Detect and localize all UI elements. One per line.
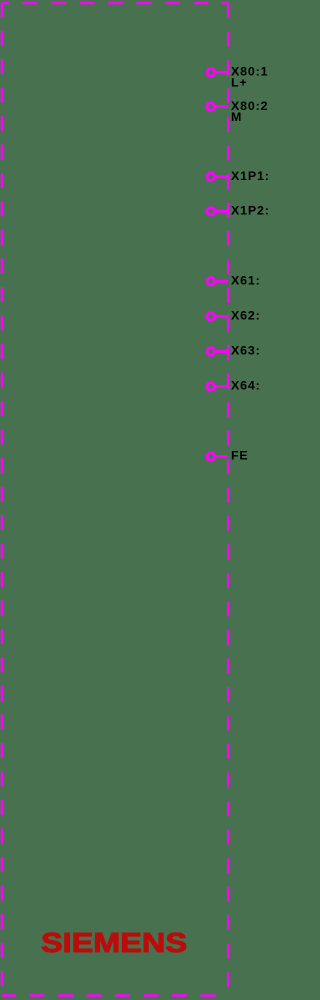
terminal FE — [207, 449, 249, 463]
svg-text:X64:: X64: — [231, 379, 261, 393]
svg-text:M: M — [231, 110, 242, 124]
svg-text:X1P2:: X1P2: — [231, 204, 269, 218]
svg-text:X63:: X63: — [231, 344, 261, 358]
svg-text:X62:: X62: — [231, 309, 261, 323]
svg-text:X61:: X61: — [231, 274, 261, 288]
svg-text:SIEMENS: SIEMENS — [41, 927, 187, 958]
terminal X63 — [207, 344, 261, 358]
terminal X80:2 — [207, 99, 268, 124]
wire bottom border — [2, 994, 228, 997]
terminal X1P2 — [207, 204, 270, 218]
symbol outline (dashed box) — [2, 3, 228, 996]
terminal X61 — [207, 274, 261, 288]
svg-text:X1P1:: X1P1: — [231, 169, 269, 183]
terminal X1P1 — [207, 169, 270, 183]
wire left border — [1, 3, 4, 996]
terminal X62 — [207, 309, 261, 323]
wire right border — [227, 3, 230, 996]
terminal X80:1 — [207, 64, 268, 89]
svg-text:L+: L+ — [231, 76, 248, 90]
terminal X64 — [207, 379, 261, 393]
svg-text:FE: FE — [231, 449, 249, 463]
wire top border — [2, 2, 228, 5]
